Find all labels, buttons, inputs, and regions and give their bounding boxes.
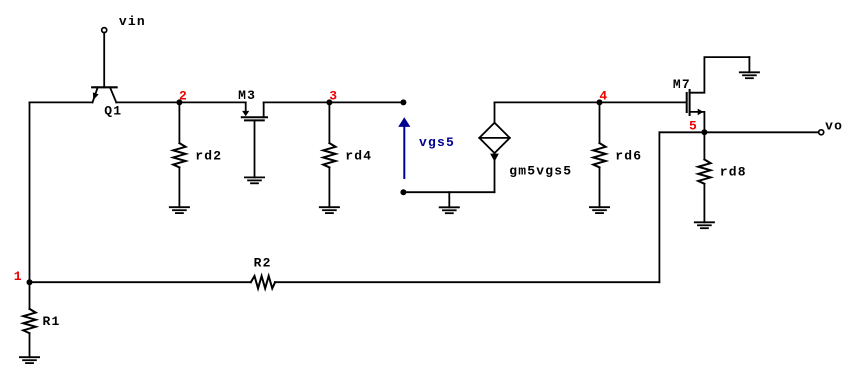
svg-text:vo: vo (825, 119, 843, 134)
node 3 (326, 89, 338, 106)
transistor Q1 (92, 33, 116, 103)
svg-text:rd2: rd2 (195, 149, 222, 164)
svg-text:4: 4 (599, 89, 608, 104)
voltage arrow vgs5 (398, 117, 455, 178)
wire bottom left of R2 (30, 281, 251, 283)
transistor M7 (673, 57, 750, 132)
svg-text:rd4: rd4 (345, 149, 372, 164)
node wire-end top (400, 99, 406, 105)
ground rd8 (695, 222, 714, 228)
ground M7 drain (740, 57, 759, 78)
wire right vertical (658, 132, 660, 282)
node 4 (597, 89, 609, 106)
transistor M3 (238, 88, 267, 177)
resistor rd4 (323, 102, 372, 207)
svg-text:vgs5: vgs5 (419, 135, 455, 150)
svg-text:1: 1 (14, 269, 23, 284)
svg-text:rd8: rd8 (720, 165, 747, 180)
svg-text:R2: R2 (254, 255, 272, 270)
node 1 (14, 269, 33, 285)
svg-text:3: 3 (329, 89, 338, 104)
node wire-end bottom (400, 189, 406, 195)
svg-text:gm5vgs5: gm5vgs5 (509, 164, 572, 179)
current source gm5vgs5 (479, 102, 572, 192)
svg-text:Q1: Q1 (104, 104, 122, 119)
wire Q1 collector to M3 gate (116, 101, 245, 103)
wire M3 drain to end dot (264, 101, 404, 103)
ground bottom middle (440, 192, 459, 213)
wire bottom middle (403, 191, 494, 193)
wire current source to M7 gate (495, 101, 686, 103)
resistor rd6 (593, 102, 642, 207)
wire left vertical (29, 102, 31, 282)
resistor R2 (251, 255, 275, 288)
wire node5 row (659, 131, 818, 133)
svg-text:2: 2 (179, 89, 188, 104)
node 2 (176, 89, 188, 106)
svg-text:M3: M3 (238, 88, 256, 103)
wire top-left horizontal (30, 101, 93, 103)
resistor rd8 (698, 132, 747, 222)
ground M3 source (245, 177, 264, 183)
ground rd4 (320, 207, 339, 213)
svg-text:vin: vin (119, 14, 146, 29)
ground rd2 (170, 207, 189, 213)
svg-text:M7: M7 (673, 77, 691, 92)
resistor R1 (23, 282, 60, 357)
terminal vo (819, 130, 824, 135)
svg-text:rd6: rd6 (615, 149, 642, 164)
wire bottom right of R2 (275, 281, 659, 283)
node 5 (689, 118, 707, 135)
svg-text:5: 5 (689, 118, 698, 133)
ground R1 (20, 357, 39, 363)
resistor rd2 (173, 102, 222, 207)
terminal vin (102, 28, 107, 33)
ground rd6 (590, 207, 609, 213)
svg-text:R1: R1 (43, 314, 61, 329)
